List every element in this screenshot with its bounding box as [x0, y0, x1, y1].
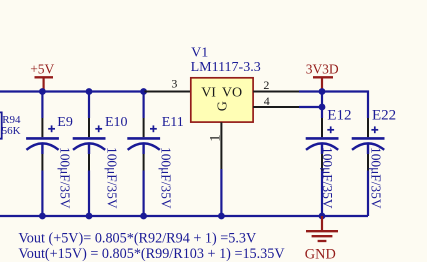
- ground GND: [305, 216, 338, 262]
- wire +5V rail top: [0, 90, 145, 92]
- svg-text:2: 2: [263, 78, 269, 92]
- svg-text:R94: R94: [2, 114, 21, 126]
- svg-text:1: 1: [208, 134, 224, 142]
- svg-text:E22: E22: [372, 108, 396, 124]
- svg-text:E10: E10: [105, 115, 128, 130]
- node C junction dot E11 top: [140, 88, 147, 95]
- capacitor E9: [26, 92, 73, 217]
- svg-text:100μF/35V: 100μF/35V: [105, 147, 120, 209]
- capacitor E10: [73, 92, 128, 217]
- node A junction dot E9 top: [39, 88, 46, 95]
- svg-text:VO: VO: [222, 86, 242, 101]
- pin 2 lead (black): [253, 91, 299, 93]
- junction dot E9 bottom: [39, 213, 46, 220]
- svg-text:3: 3: [171, 77, 177, 91]
- svg-text:Vout (+5V)= 0.805*(R92/R94 + 1: Vout (+5V)= 0.805*(R92/R94 + 1) =5.3V: [18, 231, 257, 247]
- wire pin3 (black pin lead): [145, 91, 191, 93]
- power symbol +5V: [30, 62, 54, 92]
- node D junction dot pin2/3V3D: [319, 88, 326, 95]
- wire pin1 to bottom rail: [220, 169, 222, 216]
- svg-text:E9: E9: [57, 115, 73, 130]
- svg-text:Vout(+15V) = 0.805*(R99/R103 +: Vout(+15V) = 0.805*(R99/R103 + 1) =15.35…: [18, 246, 285, 262]
- wire pin2 to 3V3D node and E22: [299, 92, 368, 119]
- power symbol 3V3D: [306, 62, 339, 92]
- capacitor E11: [127, 92, 183, 217]
- wire bottom rail: [0, 215, 368, 217]
- node B junction dot E10 top: [86, 88, 93, 95]
- wire pin4 to node: [299, 106, 322, 108]
- resistor R94 (partial at left edge): [0, 112, 21, 138]
- pin 1 lead (black): [220, 122, 222, 169]
- svg-text:56K: 56K: [2, 125, 21, 137]
- svg-text:4: 4: [264, 94, 270, 108]
- capacitor E22: [352, 108, 396, 216]
- svg-text:100μF/35V: 100μF/35V: [57, 147, 72, 209]
- svg-text:100μF/35V: 100μF/35V: [159, 147, 174, 209]
- junction dot E11 bottom: [140, 213, 147, 220]
- svg-text:100μF/35V: 100μF/35V: [368, 147, 383, 209]
- svg-text:V1: V1: [191, 45, 208, 60]
- svg-text:+5V: +5V: [30, 62, 54, 77]
- pin 4 lead (black): [253, 106, 299, 108]
- junction dot pin1 bottom: [218, 213, 225, 220]
- node E junction dot pin4: [319, 104, 326, 111]
- junction dot GND: [319, 213, 326, 220]
- svg-text:3V3D: 3V3D: [306, 62, 339, 77]
- svg-text:GND: GND: [305, 247, 336, 262]
- svg-text:G: G: [215, 101, 230, 111]
- svg-text:LM1117-3.3: LM1117-3.3: [191, 60, 261, 75]
- junction dot E10 bottom: [86, 213, 93, 220]
- regulator V1 LM1117-3.3: [191, 45, 261, 122]
- svg-text:E11: E11: [162, 115, 184, 130]
- svg-text:100μF/35V: 100μF/35V: [320, 147, 335, 209]
- svg-text:VI: VI: [201, 86, 216, 101]
- wire node down to E12: [321, 92, 323, 119]
- svg-text:E12: E12: [327, 108, 351, 124]
- capacitor E12: [306, 108, 352, 216]
